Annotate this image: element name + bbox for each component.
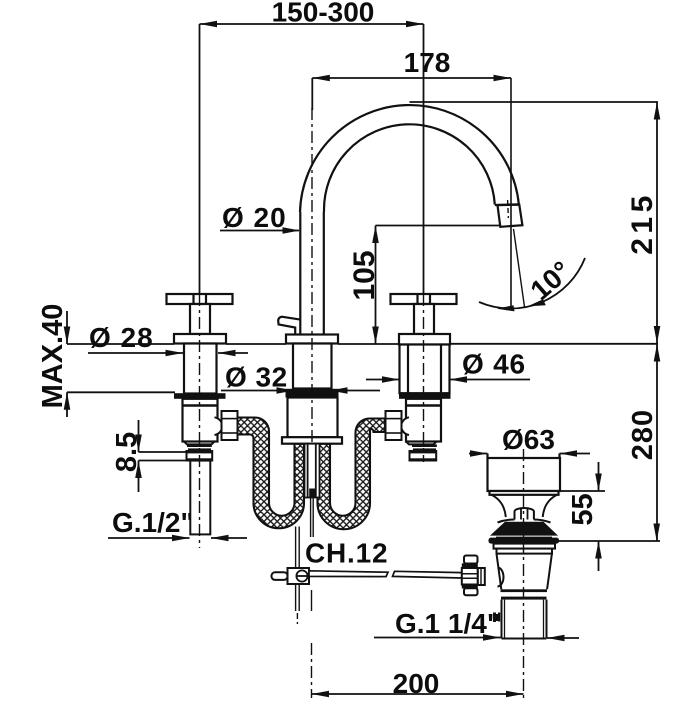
dim 215 line	[656, 102, 658, 344]
svg-text:G.1 1/4": G.1 1/4"	[395, 608, 500, 639]
dim 280 arrows	[653, 344, 660, 541]
right valve tail cylinder	[406, 399, 441, 442]
spout arc outer	[300, 105, 519, 212]
svg-text:CH.12: CH.12	[305, 538, 388, 569]
dim 105 line	[375, 226, 377, 345]
left valve stem	[190, 304, 210, 334]
dim MAX.40	[66, 311, 68, 417]
pop-up rod lower	[295, 527, 297, 612]
dim 200	[312, 693, 524, 695]
dim O28	[88, 352, 248, 354]
horizontal actuating rod left segment	[309, 571, 388, 577]
right valve barrel	[400, 345, 450, 394]
svg-text:Ø 32: Ø 32	[225, 362, 288, 393]
pop-up rod black end	[309, 489, 316, 498]
right valve collar	[410, 451, 437, 461]
drain threaded tube	[502, 600, 547, 639]
left valve hose nut	[222, 411, 238, 440]
spout outlet joint line	[495, 203, 519, 206]
10 deg arc	[479, 258, 585, 309]
drain black rim	[489, 538, 560, 544]
dim 280 line	[656, 344, 658, 541]
drain cap	[488, 458, 561, 491]
svg-text:MAX.40: MAX.40	[37, 304, 69, 409]
left valve collar	[187, 451, 213, 461]
dim G.1 1/4	[374, 637, 579, 640]
left valve connector bulge	[215, 417, 223, 435]
drain small marks under nut	[493, 613, 496, 623]
left valve tail cylinder	[183, 399, 218, 442]
spout center tube	[305, 444, 320, 498]
drain lever block	[478, 568, 485, 585]
extension line spout top to 215 dim	[410, 101, 659, 103]
dim 215 arrows	[654, 102, 661, 344]
centerline under spout for 200 dim	[311, 643, 313, 698]
right valve cross handle	[391, 294, 457, 304]
drain knurled nut	[464, 556, 478, 564]
extension line 280 bottom	[558, 540, 660, 542]
svg-text:178: 178	[404, 47, 451, 78]
horizontal actuating rod right segment	[393, 571, 462, 578]
centerline drain	[523, 449, 525, 698]
svg-text:55: 55	[567, 493, 599, 525]
svg-text:Ø 28: Ø 28	[89, 322, 154, 353]
centerline spout	[311, 108, 313, 443]
svg-text:Ø 46: Ø 46	[462, 349, 526, 380]
svg-text:150-300: 150-300	[272, 0, 375, 28]
right valve deck seal band	[399, 393, 451, 399]
dim 55	[560, 462, 605, 571]
drain body boss arc	[498, 568, 504, 587]
svg-text:105: 105	[348, 250, 381, 300]
drain flare under knob	[498, 520, 551, 523]
right valve flange	[399, 334, 450, 345]
right valve stem	[414, 304, 434, 334]
svg-text:280: 280	[627, 409, 659, 460]
drain neck	[492, 495, 558, 517]
left valve deck seal band	[174, 393, 226, 399]
svg-text:8.5: 8.5	[111, 432, 143, 472]
pop-up rod upper	[310, 498, 312, 538]
svg-text:200: 200	[393, 668, 440, 699]
svg-text:Ø 20: Ø 20	[222, 202, 287, 233]
svg-text:215: 215	[626, 191, 659, 255]
right valve hose nut	[386, 411, 402, 440]
dim G.1/2	[108, 537, 247, 539]
drain seat gap	[496, 536, 552, 538]
right valve connector bulge	[401, 417, 409, 435]
drain tapering body	[497, 554, 552, 590]
svg-text:G.1/2": G.1/2"	[112, 507, 194, 538]
pop-up lever at spout	[278, 317, 300, 335]
left valve flange	[174, 334, 226, 344]
centerline left valve	[199, 294, 201, 548]
spout base flange	[286, 335, 338, 344]
drain upper body	[494, 544, 556, 549]
drain cap lip	[490, 491, 559, 495]
left hose	[237, 418, 304, 529]
left valve inlet pipe G1/2	[190, 461, 210, 535]
spout lower flange	[282, 437, 342, 444]
spout arc inner	[324, 124, 495, 212]
dim 178 arrows	[312, 75, 511, 82]
dim 8.5	[139, 420, 188, 492]
dim 150-300 arrows	[200, 21, 424, 28]
dim O20 leader	[220, 230, 299, 232]
drain black seal cone	[490, 522, 558, 536]
dim 178 line	[312, 78, 511, 309]
dim O46	[366, 379, 530, 381]
right hose	[318, 419, 386, 530]
spout mounting body	[288, 398, 338, 438]
spout base barrel below deck	[293, 344, 332, 389]
drain tube bottom	[502, 638, 547, 640]
svg-text:Ø63: Ø63	[502, 424, 555, 455]
left valve cross handle	[167, 294, 233, 304]
deck top line	[67, 343, 658, 345]
dim O63	[469, 454, 590, 461]
spout outlet tip	[498, 205, 523, 227]
dim O32	[221, 390, 380, 392]
rod clamp	[272, 572, 288, 580]
under-deck line	[67, 391, 175, 393]
10 deg arrows	[497, 299, 546, 311]
spout deck seal band	[286, 389, 339, 398]
centerline right valve	[423, 294, 425, 462]
dim 150-300 line	[200, 24, 424, 294]
left valve tail rings	[184, 442, 215, 445]
spout vertical pipe walls	[299, 212, 301, 335]
drain knob	[515, 508, 534, 520]
10 deg annotation: slanted line	[514, 229, 525, 307]
right valve tail rings	[406, 442, 437, 445]
outlet level extension line	[376, 225, 500, 227]
drain groove rings	[501, 589, 548, 592]
left valve barrel	[184, 344, 217, 394]
